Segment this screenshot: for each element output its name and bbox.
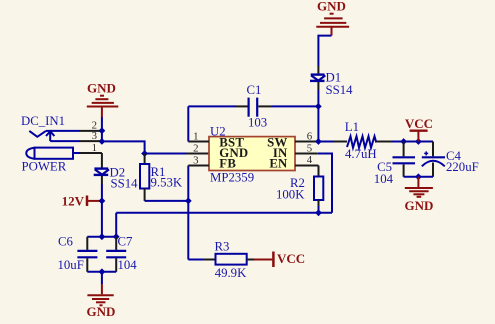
svg-text:GND: GND [87,304,116,319]
power port GND bottom-left [87,284,116,319]
wire VCC node [404,141,433,143]
svg-text:VCC: VCC [277,251,305,266]
svg-text:DC_IN1: DC_IN1 [21,114,65,128]
resistor R3 49.9K [203,239,254,280]
power port GND top-right [316,0,349,36]
wire GND jog to D1 [318,36,331,66]
svg-text:POWER: POWER [22,160,67,174]
resistor R2 100K [276,166,323,213]
junction dot C5 top [400,138,407,145]
pin 5 IN [295,153,318,155]
svg-text:104: 104 [374,172,394,186]
power port GND top-left [87,81,119,131]
pin 4 EN [295,165,319,167]
wire C5/C4 bottom [404,176,433,178]
svg-text:3: 3 [92,130,97,142]
svg-text:FB: FB [219,156,236,170]
pin 1 BST [188,141,209,143]
power port GND bottom-right [405,177,434,213]
junction dot pin3 [99,138,106,145]
svg-text:C6: C6 [58,235,74,249]
junction dot GND right [415,173,422,180]
svg-text:49.9K: 49.9K [215,266,247,280]
inductor L1 4.7uH [345,120,377,161]
svg-text:SS14: SS14 [326,83,354,97]
wire SW to L1 [318,141,334,143]
svg-text:EN: EN [269,156,288,170]
wire IN net down to C7 [115,213,117,237]
svg-text:MP2359: MP2359 [210,170,254,184]
svg-text:C7: C7 [118,235,134,249]
capacitor bank C6 C7 top bus [87,236,116,238]
svg-text:2: 2 [193,142,198,154]
svg-text:4: 4 [307,154,313,166]
svg-text:L1: L1 [345,120,359,134]
IC U2 MP2359 body [209,124,295,184]
svg-text:5: 5 [307,142,312,154]
power port VCC right [254,251,305,267]
junction dot SW [315,138,322,145]
svg-text:10uF: 10uF [58,258,84,272]
junction dot bus right [113,233,120,240]
junction dot bus bottom [99,268,106,275]
wire D2 to 12V node [101,176,103,184]
capacitor C5 104 [374,142,415,187]
junction dot VCC stem [415,138,422,145]
junction dot pin2 [99,127,106,134]
svg-text:GND: GND [87,81,116,96]
svg-text:12V: 12V [62,193,85,208]
svg-text:VCC: VCC [405,116,433,131]
wire down to D2 [101,153,103,168]
svg-text:1: 1 [193,130,198,142]
junction dot bus left [99,233,106,240]
capacitor C1 103 [188,83,318,129]
wire IN pin drop [318,154,332,213]
svg-text:6: 6 [307,130,313,142]
svg-text:SS14: SS14 [111,177,139,191]
wire pin2-pin3 vertical [101,131,103,142]
diode D2 SS14 [94,166,138,191]
resistor R1 9.53K [140,154,183,201]
svg-text:3: 3 [193,154,198,166]
wire to GND bottom-left [101,272,103,284]
wire IN net horizontal [116,212,332,214]
wire D1 to SW [317,82,319,90]
junction dot FB/R1 [185,198,192,205]
svg-text:104: 104 [118,258,138,272]
svg-text:4.7uH: 4.7uH [345,147,377,161]
pin 6 SW [295,141,318,143]
wire BST vertical to C1 [187,106,189,141]
power port VCC top [405,116,433,142]
wire pin3 jog to R1/GND pin [102,141,187,153]
svg-text:100K: 100K [276,188,305,202]
svg-text:GND: GND [317,0,346,13]
junction dot 12V node [99,198,106,205]
svg-text:103: 103 [248,115,267,129]
wire R1 bottom to FB vertical [145,200,189,202]
capacitor C7 104 [106,235,137,272]
svg-text:C1: C1 [247,83,262,97]
junction dot C1/SW [315,103,322,110]
capacitor C6 10uF [58,235,98,272]
capacitor bank bottom bus [87,271,116,273]
pin 3 FB [188,165,209,167]
wire FB net vertical [187,166,189,260]
diode D1 SS14 [310,71,353,98]
capacitor C4 220uF [422,142,479,177]
svg-text:9.53K: 9.53K [151,176,183,190]
connector DC_IN1 [21,114,102,154]
junction dot R1 top [141,150,148,157]
svg-text:220uF: 220uF [446,160,479,174]
junction dot R2 bottom [315,209,322,216]
component POWER [22,148,102,174]
svg-text:R3: R3 [215,239,230,253]
power port 12V [62,193,102,208]
svg-text:GND: GND [405,198,434,213]
wire FB to R3 [188,259,203,261]
